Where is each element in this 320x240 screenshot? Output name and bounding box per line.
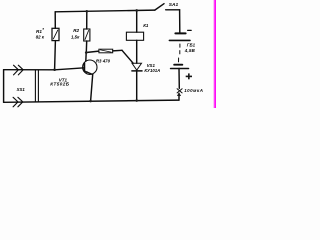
thyristor VS1	[132, 63, 142, 100]
junction node R3 tap	[85, 51, 88, 54]
resistor R3	[86, 49, 122, 53]
battery minus sign	[188, 29, 192, 31]
meter probe arrow	[177, 92, 181, 100]
switch SA1	[155, 4, 180, 10]
junction node thyristor-rail	[135, 99, 138, 102]
wire bottom rail	[4, 100, 179, 102]
resistor R1	[52, 12, 59, 70]
svg-text:SA1: SA1	[169, 2, 179, 8]
svg-text:К1: К1	[143, 23, 149, 28]
svg-text:1,5к: 1,5к	[71, 34, 80, 39]
wire collector	[85, 53, 87, 62]
junction node R2-rail	[86, 10, 89, 13]
label plus	[186, 73, 192, 79]
junction node emitter-rail	[89, 100, 92, 103]
meter terminal X	[177, 89, 182, 93]
junction node R1-base	[53, 68, 56, 71]
transistor VT1	[83, 60, 97, 101]
svg-text:R2: R2	[73, 28, 79, 33]
connector XS1 plug pin top	[14, 65, 24, 75]
svg-text:КТ502Б: КТ502Б	[50, 82, 70, 87]
wire left input vertical	[3, 70, 5, 103]
battery GB1	[169, 10, 190, 89]
svg-text:82 к: 82 к	[36, 35, 45, 40]
relay coil K1	[126, 10, 143, 63]
svg-text:100мкА: 100мкА	[184, 88, 203, 93]
connector XS1 socket contacts	[35, 70, 38, 102]
svg-text:4,5В: 4,5В	[184, 48, 196, 53]
scan edge pink stripe	[212, 0, 215, 108]
wire thyristor gate	[122, 50, 133, 63]
resistor R2	[84, 11, 90, 52]
wire top rail	[55, 10, 155, 12]
svg-text:КУ101А: КУ101А	[144, 68, 160, 73]
connector XS1 plug pin bottom	[13, 97, 23, 107]
svg-text:ХS1: ХS1	[16, 87, 26, 92]
svg-text:ГБ1: ГБ1	[187, 42, 196, 47]
svg-text:R3 470: R3 470	[96, 59, 111, 64]
wire base	[4, 68, 85, 70]
junction node K1-rail	[135, 9, 138, 12]
